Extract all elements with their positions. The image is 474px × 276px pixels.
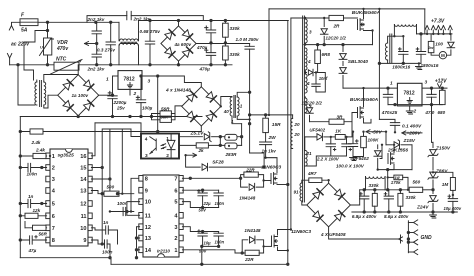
capacitor 6.8u 400v first <box>363 190 365 196</box>
svg-text:8.6µ x 400v: 8.6µ x 400v <box>384 214 409 219</box>
wire ir2110 pin1 to low side gate network <box>182 250 242 253</box>
sg3525 pin 10 <box>88 225 92 231</box>
resistor 3R <box>310 121 330 123</box>
Q1 drain wire <box>266 158 277 173</box>
svg-text:7: 7 <box>52 226 55 232</box>
T1 winding 4 b <box>305 74 307 93</box>
wire winding91 bottom to bridge <box>302 201 307 205</box>
svg-text:1800x16: 1800x16 <box>392 64 410 69</box>
wire winding3 top to 2R <box>291 18 329 19</box>
HV riser to top rail <box>268 9 270 115</box>
wire ir2110 pin3 node <box>182 227 218 232</box>
svg-text:2W: 2W <box>268 135 277 141</box>
output inductor top <box>393 25 395 37</box>
optocoupler phototransistor <box>150 137 156 154</box>
svg-text:1M: 1M <box>442 182 449 187</box>
wire 3R to BUK lower gate <box>344 113 358 122</box>
svg-text:1a 100v: 1a 100v <box>72 93 89 98</box>
optocoupler U3 <box>141 134 179 159</box>
capacitor 2.2 X 100V second <box>346 137 348 144</box>
bottom rail right end <box>286 263 289 266</box>
svg-text:2: 2 <box>166 153 169 159</box>
ground symbol standby <box>418 63 420 66</box>
svg-text:0.1 400V: 0.1 400V <box>402 124 422 130</box>
BUK upper source <box>364 31 373 45</box>
sg3525 pin 3 <box>46 176 50 182</box>
output filter rail <box>360 189 410 191</box>
svg-text:GND: GND <box>421 235 433 241</box>
wire pin 14 vertical <box>91 129 110 194</box>
stub near resistor 500 <box>121 129 123 194</box>
capacitor 1800x16 first <box>402 36 404 51</box>
svg-text:3: 3 <box>174 225 177 231</box>
bleeder 330k first <box>372 193 377 206</box>
svg-text:2.4k: 2.4k <box>35 148 45 153</box>
svg-text:4a 600v: 4a 600v <box>174 42 192 47</box>
feedback line <box>20 131 201 133</box>
gate transformer right winding bottom wire <box>237 116 249 119</box>
resistor 1K <box>335 135 345 140</box>
bottom AC rail <box>10 64 54 66</box>
common-mode choke <box>118 22 120 41</box>
svg-text:3: 3 <box>309 30 312 35</box>
capacitor 10u 50V lower <box>202 232 204 234</box>
svg-text:100: 100 <box>435 42 443 47</box>
svg-text:470v: 470v <box>56 46 69 52</box>
AC input terminal L with arrow <box>9 26 13 31</box>
svg-text:47.0: 47.0 <box>424 110 434 115</box>
capacitor 2200u 25v <box>112 76 114 95</box>
svg-text:12k: 12k <box>33 208 41 213</box>
svg-text:470µ: 470µ <box>199 66 211 71</box>
wire bridge3 right corner to gate transformer <box>221 97 232 107</box>
wire pin 16 <box>91 123 95 156</box>
svg-text:22R: 22R <box>244 257 254 262</box>
output ground rail <box>352 211 457 213</box>
ground rail under left 7812 <box>20 116 202 118</box>
wire 4R7 to output bridge <box>322 180 329 183</box>
svg-text:21: 21 <box>306 151 313 156</box>
resistor 560 <box>409 187 423 192</box>
svg-text:2R: 2R <box>333 24 341 29</box>
svg-text:10: 10 <box>145 200 151 206</box>
svg-text:6.8µ x 400v: 6.8µ x 400v <box>352 214 377 219</box>
svg-text:12C20 2/2: 12C20 2/2 <box>302 101 323 106</box>
svg-text:+7.3V: +7.3V <box>431 19 445 25</box>
capacitor 1800x16 second <box>420 34 422 52</box>
regulator 7812 right <box>397 83 422 106</box>
svg-text:20: 20 <box>293 132 300 137</box>
svg-text:9: 9 <box>145 188 148 194</box>
capacitor 1n at pin 10 <box>91 228 117 244</box>
diode 1N4148 upper <box>249 183 254 191</box>
stepped wire VDR node to aux transformer <box>24 31 48 81</box>
svg-text:5: 5 <box>52 202 55 208</box>
BUK lower source <box>364 119 372 124</box>
svg-text:100n: 100n <box>102 250 113 255</box>
svg-text:2n2 1kv: 2n2 1kv <box>87 17 105 22</box>
lower gate network nodes <box>242 240 248 253</box>
svg-text:47µ: 47µ <box>28 248 37 253</box>
wire bridge2 right corner to regulator input <box>99 94 113 96</box>
Q2 drain wire <box>278 230 291 236</box>
svg-text:2.4k: 2.4k <box>31 140 41 145</box>
sg3525 pin 4 <box>46 188 50 194</box>
series capacitor 2n2 1kv with bypass wire <box>87 16 203 23</box>
svg-text:6: 6 <box>174 188 177 194</box>
Q2 source wire <box>278 247 288 251</box>
svg-text:40: 40 <box>223 109 230 114</box>
svg-text:25v: 25v <box>116 105 125 110</box>
diode 1N4148 lower <box>249 236 254 244</box>
svg-text:8: 8 <box>52 238 55 244</box>
svg-text:2.2 X 100V: 2.2 X 100V <box>316 156 340 161</box>
svg-text:14: 14 <box>145 248 152 254</box>
svg-text:56R: 56R <box>39 232 48 237</box>
sg3525 pin 15 <box>88 165 92 171</box>
svg-text:3: 3 <box>148 78 151 84</box>
svg-text:91: 91 <box>294 190 300 195</box>
resistor 1M <box>433 172 453 177</box>
top HV rail <box>269 8 425 10</box>
capacitor 100n at pin 9 <box>91 240 110 258</box>
svg-text:10µ: 10µ <box>204 241 212 246</box>
capacitor 2n2 1kv upper X-cap <box>96 22 98 31</box>
+7.3V rail <box>417 33 453 35</box>
wire 7812 right output <box>422 87 447 89</box>
ir2110 pin 7 <box>179 176 183 182</box>
svg-text:1: 1 <box>240 104 243 109</box>
svg-text:1: 1 <box>390 81 393 87</box>
capacitor 100n mid <box>110 211 134 213</box>
svg-text:2: 2 <box>52 166 55 172</box>
capacitor 100.0 X 100V <box>352 132 354 144</box>
capacitor 47.0 <box>431 88 433 94</box>
svg-text:1800x16: 1800x16 <box>421 63 439 68</box>
output bridge 4 X UF5408 <box>307 183 351 227</box>
svg-text:2n2 1kv: 2n2 1kv <box>87 67 105 72</box>
svg-text:680: 680 <box>438 110 446 115</box>
wire pin 15 long vertical <box>91 129 141 244</box>
ir2110 pin 12 <box>139 224 143 230</box>
svg-text:1: 1 <box>174 248 177 254</box>
mid rail windings 3-4 <box>304 43 373 45</box>
svg-text:56R: 56R <box>161 106 170 111</box>
resistor 2.4k feedback <box>30 129 43 134</box>
wire upper caps return <box>182 202 218 208</box>
gate transformer right winding top wire <box>237 92 249 97</box>
GND connector bus <box>407 221 409 253</box>
node after zener <box>219 135 222 138</box>
capacitor 100n upper right <box>218 190 220 193</box>
T1 winding 91 <box>300 183 302 201</box>
lower caps return to ground <box>202 246 219 264</box>
svg-text:6: 6 <box>52 214 55 220</box>
svg-text:11: 11 <box>81 214 87 220</box>
standby winding bottom wire <box>387 60 389 63</box>
svg-text:5A: 5A <box>21 28 28 34</box>
sg3525 pin 6 <box>46 213 50 219</box>
wire ir2110 pin10 pin11 <box>127 202 140 216</box>
capacitor 470x25 <box>387 88 389 94</box>
optocoupler LED <box>167 140 175 149</box>
wire ir2110 pin12 <box>137 226 140 228</box>
jumper 283R upper <box>225 134 237 140</box>
capacitor 10u 400v <box>452 190 454 198</box>
resistor 56R a <box>175 106 182 114</box>
resistor 6R8 <box>317 45 319 50</box>
thermistor NTC <box>54 62 79 70</box>
svg-text:2k: 2k <box>198 148 205 153</box>
wire bridge2 left corner to winding <box>48 95 58 108</box>
svg-text:1n: 1n <box>103 220 109 225</box>
svg-text:2: 2 <box>413 109 417 115</box>
wire primary top end <box>290 18 292 230</box>
+7.3V terminal arrows <box>426 30 428 34</box>
wire -50V +280V line <box>366 132 422 133</box>
svg-text:2w: 2w <box>427 46 434 50</box>
capacitor 16v aux <box>315 73 317 85</box>
wire 283R to sense node <box>241 124 243 146</box>
aux mains transformer <box>18 65 35 105</box>
svg-text:7812: 7812 <box>124 77 135 83</box>
T1 primary winding 20+20 <box>291 119 293 149</box>
svg-text:5: 5 <box>174 200 177 206</box>
wire top rail to +7.3V rail <box>424 9 426 34</box>
gate transformer left winding bottom wire <box>232 116 242 124</box>
earth arrow at X-cap midpoint <box>85 43 97 45</box>
standby winding top wire <box>388 36 404 43</box>
wire bridge2 bottom to ground rail <box>77 115 79 118</box>
zener Z15V <box>386 144 392 146</box>
sg3525 pin 16 <box>88 153 92 159</box>
regulator 7812 left <box>118 71 142 90</box>
ir2110 pin 2 <box>179 235 183 241</box>
svg-text:ir2110: ir2110 <box>157 249 170 254</box>
svg-text:330k: 330k <box>406 195 417 200</box>
resistor 100K <box>363 132 365 137</box>
svg-text:15: 15 <box>80 166 86 172</box>
T1 winding 3 lower <box>305 98 307 113</box>
sg3525 pin 2 <box>46 165 50 171</box>
Q1 source wire <box>277 184 288 186</box>
svg-text:22µ: 22µ <box>203 201 212 206</box>
jumper 283R lower <box>225 143 237 149</box>
wire primary bottom end <box>291 148 293 150</box>
ir2110 pin 6 <box>179 187 183 193</box>
resistor 2k <box>179 144 220 146</box>
svg-text:Z86V: Z86V <box>435 168 448 174</box>
svg-text:3: 3 <box>145 153 148 159</box>
wire sense path down to SF28 <box>250 153 265 167</box>
resistor 15R 2W <box>250 114 293 116</box>
svg-text:13: 13 <box>80 189 86 195</box>
svg-text:20: 20 <box>293 122 300 127</box>
svg-text:-50V: -50V <box>372 130 383 136</box>
arrow marker at opto pin3 <box>186 154 197 156</box>
main transformer T1 core <box>303 16 305 202</box>
bleeder 330k second <box>398 193 403 206</box>
capacitor 47u at pin 8 <box>20 239 46 241</box>
sg3525 pin 8 <box>46 237 50 243</box>
svg-text:Z5.1V: Z5.1V <box>190 130 205 136</box>
svg-text:16: 16 <box>80 154 86 160</box>
svg-text:3R: 3R <box>337 114 344 119</box>
ir2110 pin 4 <box>179 213 183 219</box>
standby transformer T3 core <box>390 34 392 63</box>
sg3525 pin 5 <box>46 201 50 207</box>
svg-text:500: 500 <box>107 184 115 189</box>
svg-text:UF5402: UF5402 <box>309 128 325 133</box>
svg-text:0.68 275v: 0.68 275v <box>140 29 161 34</box>
capacitor 100u <box>140 76 142 100</box>
svg-text:470x25: 470x25 <box>381 110 398 115</box>
wire bridge3 top corner <box>200 86 202 88</box>
wire ir2110 pin7 high side gate <box>182 177 240 179</box>
top rail after choke <box>139 20 289 22</box>
svg-text:BUK45G60A: BUK45G60A <box>350 97 379 103</box>
7812 right ground network <box>388 104 442 106</box>
zener chain Z150V <box>432 142 434 147</box>
svg-text:Z24V: Z24V <box>416 205 429 211</box>
svg-text:1: 1 <box>52 154 55 160</box>
svg-text:0.3 275v: 0.3 275v <box>97 48 115 53</box>
svg-text:1N4148: 1N4148 <box>239 196 256 201</box>
svg-text:4: 4 <box>306 81 310 86</box>
svg-text:9: 9 <box>83 238 86 244</box>
standby transformer winding <box>385 43 387 60</box>
transistor Q1 11N60C3 upper <box>271 173 277 185</box>
svg-text:4: 4 <box>145 137 148 143</box>
svg-text:330k: 330k <box>230 52 241 57</box>
svg-text:M: M <box>441 53 445 58</box>
varistor VDR 470v <box>47 22 49 38</box>
svg-text:BUK45G60A: BUK45G60A <box>352 10 381 16</box>
svg-text:7: 7 <box>174 176 177 182</box>
svg-text:4 x 1N4148: 4 x 1N4148 <box>165 88 191 94</box>
ir2110 pin 13 <box>139 235 143 241</box>
IC U1 sg3525 <box>50 149 88 246</box>
main bottom rail <box>111 263 288 265</box>
ir2110 pin 8 <box>139 176 143 182</box>
svg-text:UF5402: UF5402 <box>353 156 370 161</box>
svg-text:1.0 M 250v: 1.0 M 250v <box>236 37 259 42</box>
svg-text:330k: 330k <box>369 183 380 188</box>
zener Z24V <box>428 196 438 203</box>
resistor 22R upper gate <box>244 172 258 177</box>
wire output bridge right corner <box>351 190 360 205</box>
motor M symbol <box>439 52 446 59</box>
capacitor 0.3 275v <box>110 22 112 42</box>
capacitor 1n at pin 5 <box>20 203 46 205</box>
GND connector pins <box>408 222 413 224</box>
IC U2 ir2110 <box>143 175 179 257</box>
dual schottky SBL3040 lower half <box>342 62 344 66</box>
wire output bridge bottom to GND arrow <box>329 227 399 239</box>
ir2110 pin 3 <box>179 224 183 230</box>
svg-text:Z150V: Z150V <box>435 146 451 152</box>
svg-text:10: 10 <box>80 226 86 232</box>
node line over optocoupler <box>95 123 141 134</box>
bridge rectifier 4a 600v <box>178 21 180 27</box>
svg-text:13: 13 <box>145 236 151 242</box>
dual schottky SBL3040 upper half <box>342 45 344 52</box>
upper gate network nodes <box>241 175 248 188</box>
svg-text:11: 11 <box>145 213 151 219</box>
capacitor 2n2 1kv lower X-cap <box>92 54 101 57</box>
svg-text:7812: 7812 <box>404 91 415 97</box>
zener Z5.1V <box>179 136 202 138</box>
resistor 56R b <box>160 117 171 122</box>
wire 7812 output +12V <box>142 76 201 87</box>
resistor 330k lower <box>224 44 226 47</box>
output inductor bottom <box>365 177 367 190</box>
svg-text:4: 4 <box>307 59 311 64</box>
wire output top node <box>378 169 412 171</box>
resistor 2R <box>329 15 344 20</box>
svg-text:SBL3040: SBL3040 <box>348 59 369 65</box>
wire 7812-left output down to PWM supply <box>157 76 159 132</box>
svg-text:SF28: SF28 <box>212 160 224 166</box>
svg-text:170k: 170k <box>391 180 401 185</box>
wire filter node down <box>387 170 389 190</box>
svg-text:100.0 X 100V: 100.0 X 100V <box>336 164 365 169</box>
svg-text:3: 3 <box>425 80 428 86</box>
resistor 56R at pin 7 <box>25 227 47 229</box>
capacitor 0.68 275v <box>149 21 151 42</box>
capacitor 470u lower <box>210 44 212 53</box>
wire fuse to top rail <box>38 21 119 23</box>
svg-text:sg3525: sg3525 <box>58 152 75 158</box>
sg3525 pin 1 <box>46 153 50 159</box>
zener Z86V <box>428 172 438 179</box>
BUK lower drain <box>363 88 365 106</box>
svg-text:330k: 330k <box>230 26 241 31</box>
fuse F 5A <box>20 19 38 26</box>
svg-text:1N4148: 1N4148 <box>244 228 261 233</box>
svg-text:6R8: 6R8 <box>322 52 331 57</box>
wire to 560 zener chain <box>411 145 413 170</box>
left supply bus <box>19 117 21 258</box>
capacitor 100n at pin 2 <box>20 167 46 169</box>
wire winding4b tap rectifier <box>304 71 306 73</box>
wire bridge3 bottom corner to feedback line <box>200 126 202 132</box>
svg-text:2: 2 <box>133 91 137 97</box>
ir2110 pin 11 <box>139 213 143 219</box>
svg-text:283R: 283R <box>225 152 238 157</box>
sg3525 pin 14 <box>88 176 92 182</box>
7812 pin2 ground stub <box>129 89 131 95</box>
resistor 170k 1W <box>388 176 394 178</box>
wire 7812 input <box>113 75 119 77</box>
wire 7812 right input <box>343 87 397 89</box>
ir2110 pin 1 <box>179 247 183 253</box>
capacitor 2.2 X 100V first <box>330 137 332 144</box>
ir2110 pin 5 <box>179 199 183 205</box>
sg3525 pin 7 <box>46 225 50 231</box>
diode SF28 upper <box>186 155 201 167</box>
svg-text:NTC: NTC <box>56 57 67 63</box>
wire ir2110 pin13 pin14 to ground rail <box>137 238 140 250</box>
svg-text:56R: 56R <box>161 115 168 120</box>
T1 winding 4 a <box>305 48 307 70</box>
ir2110 pin 14 <box>139 247 143 253</box>
svg-text:12C20 1/2: 12C20 1/2 <box>326 36 347 41</box>
wire 56R pair to ground rail <box>152 114 161 120</box>
svg-text:2: 2 <box>174 236 177 242</box>
sg3525 pin 11 <box>88 213 92 219</box>
gate transformer T2 40:1 <box>230 97 232 116</box>
